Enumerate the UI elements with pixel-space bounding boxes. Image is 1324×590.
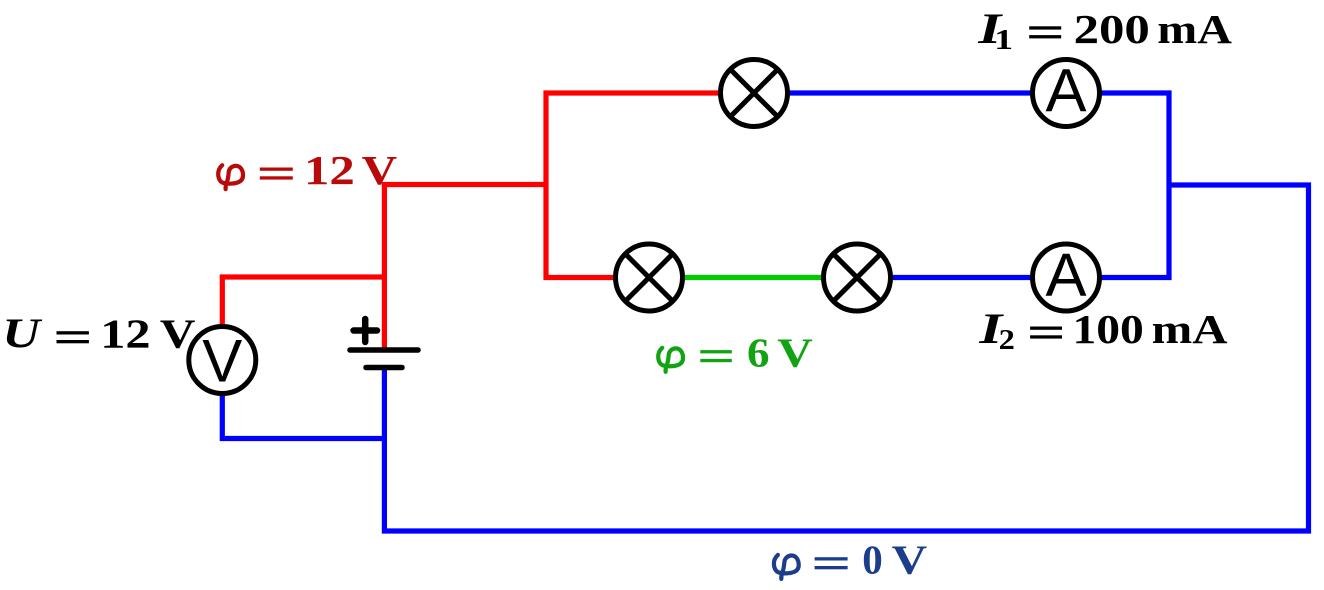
wire: red mid rail from node phi=12V to splitter <box>384 182 546 187</box>
lamp E3 (bottom branch right) <box>824 244 891 311</box>
label I2 = 100 mA <box>978 305 1228 356</box>
label U = 12 V <box>2 311 195 357</box>
battery B1 negative plate <box>366 365 402 371</box>
lamp E2 (bottom branch left) <box>616 244 683 311</box>
wire: blue top branch, join vertical, bottom branch <box>754 93 1169 278</box>
voltmeter V1 <box>189 327 256 395</box>
label I1 = 200 mA <box>977 5 1232 56</box>
svg-text:mA: mA <box>1152 307 1228 352</box>
wire: blue right rail, bottom rail, battery return <box>384 185 1308 531</box>
battery B1 positive plate <box>350 347 418 353</box>
svg-text:U: U <box>2 311 43 357</box>
wire: blue voltmeter return <box>222 360 386 439</box>
wire: red voltmeter tap <box>222 277 386 360</box>
label phi = 0 V (node potential, blue) <box>774 537 928 583</box>
ammeter A2 (bottom branch) <box>1033 241 1100 311</box>
battery B1 plus sign <box>354 319 378 342</box>
svg-text:1: 1 <box>994 24 1013 56</box>
svg-text:V: V <box>160 311 196 356</box>
ammeter A1 (top branch) <box>1033 56 1100 126</box>
wire: green between lamps <box>649 275 857 280</box>
svg-text:A: A <box>1045 56 1086 125</box>
svg-text:V: V <box>777 330 813 375</box>
svg-text:0: 0 <box>862 537 883 583</box>
svg-text:100: 100 <box>1073 306 1144 352</box>
label phi = 12 V (node potential, red) <box>218 148 397 193</box>
wire: red top-branch feed, splitter vertical, bottom-branch feed <box>546 93 754 278</box>
svg-text:A: A <box>1045 241 1086 310</box>
svg-text:6: 6 <box>747 331 770 376</box>
svg-text:12: 12 <box>304 148 355 193</box>
svg-text:V: V <box>202 328 242 395</box>
svg-text:12: 12 <box>100 311 150 356</box>
svg-text:mA: mA <box>1157 6 1232 52</box>
svg-text:V: V <box>362 148 398 193</box>
svg-text:V: V <box>892 537 928 582</box>
svg-text:2: 2 <box>999 324 1015 356</box>
label phi = 6 V (node potential, green) <box>658 330 813 376</box>
wire: red battery drop <box>382 182 387 350</box>
lamp E1 (top branch) <box>721 60 788 127</box>
svg-text:200: 200 <box>1074 6 1150 51</box>
